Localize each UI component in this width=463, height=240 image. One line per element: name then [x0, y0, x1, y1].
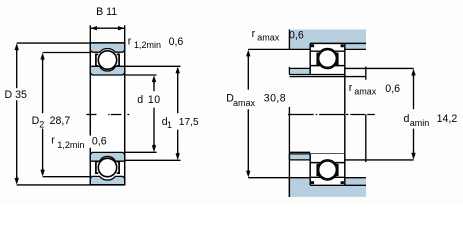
- ball bottom (right view): [319, 161, 337, 179]
- dimension D arrow top: [15, 43, 19, 52]
- shaft shoulder face (right view): [288, 107, 290, 197]
- dimension damin line: [413, 75, 415, 155]
- dimension B arrow left: [91, 26, 99, 30]
- bearing bore line bottom (right view): [289, 153, 344, 155]
- centerline (right view): [288, 114, 375, 116]
- bearing box edges bottom redraw (right view): [310, 154, 345, 185]
- dimension d1 line: [177, 72, 179, 154]
- dimension d extension lines: [125, 75, 157, 152]
- bearing box edges (right view): [309, 43, 311, 185]
- housing shoulder line top: [248, 48, 366, 50]
- outer race lines top (right view): [310, 50, 345, 52]
- race halo top (right view): [317, 48, 337, 68]
- dimension damin arrow top: [411, 69, 415, 78]
- dimension D line: [16, 45, 18, 183]
- svg-text:amax: amax: [354, 86, 377, 96]
- shaft shoulder top (right view): [289, 68, 310, 74]
- inner race lines bottom (right view): [310, 162, 345, 164]
- svg-text:0,6: 0,6: [169, 36, 184, 48]
- housing section top (right view): [289, 30, 366, 50]
- svg-text:17,5: 17,5: [179, 117, 199, 128]
- dimension damin arrow bottom: [411, 151, 415, 160]
- svg-text:d: d: [137, 94, 143, 106]
- svg-text:r: r: [128, 35, 132, 47]
- dimension d1 extension lines: [125, 66, 181, 160]
- svg-text:D 35: D 35: [5, 89, 27, 101]
- inner ring bottom section: [90, 152, 124, 161]
- dimension D extension lines: [17, 43, 91, 185]
- housing bore line top: [310, 42, 366, 44]
- shaft surface line bottom (right view): [289, 151, 310, 153]
- svg-text:r: r: [349, 82, 353, 94]
- dimension B arrow right: [116, 26, 124, 30]
- svg-text:0,6: 0,6: [289, 30, 304, 42]
- svg-text:14,2: 14,2: [437, 113, 458, 125]
- svg-text:B 11: B 11: [96, 6, 117, 18]
- dimension d line: [153, 81, 155, 147]
- svg-text:1: 1: [167, 120, 172, 130]
- dimension D2 arrow bottom: [40, 168, 44, 177]
- svg-text:10: 10: [148, 94, 161, 106]
- inner ring top section: [90, 66, 124, 75]
- dimension d1 arrow top: [176, 67, 180, 76]
- cage top (left view): [96, 54, 98, 66]
- dimension B line: [90, 27, 124, 29]
- inner race lines top (right view): [310, 65, 345, 67]
- bearing seat cutout top (right view): [310, 43, 345, 74]
- ball top (right view): [319, 50, 337, 68]
- housing shoulder line bottom: [248, 177, 366, 179]
- outer race lines bottom (right view): [310, 176, 345, 178]
- shaft step edge top (right view): [365, 67, 367, 80]
- outer ring corner marks bottom (right view): [311, 181, 314, 184]
- shaft end edge bottom (right view): [365, 115, 367, 163]
- svg-text:0,6: 0,6: [385, 83, 400, 95]
- shaft surface line top (right view): [289, 76, 366, 78]
- centerline (left view): [86, 114, 129, 116]
- outer ring bottom section: [90, 176, 124, 184]
- svg-text:30,8: 30,8: [264, 93, 286, 105]
- dimension Damax arrow bottom: [246, 169, 250, 178]
- housing shoulder face bottom: [288, 178, 290, 197]
- dimension D arrow bottom: [15, 176, 19, 185]
- housing shoulder face top: [288, 30, 290, 50]
- svg-text:amax: amax: [233, 98, 256, 108]
- svg-text:1,2min: 1,2min: [57, 140, 84, 150]
- svg-text:r: r: [252, 28, 256, 40]
- dimension d arrow top: [152, 75, 156, 84]
- outer ring corner marks top (right view): [311, 44, 314, 47]
- svg-text:28,7: 28,7: [50, 115, 71, 127]
- label r 1,2min 0,6 (lower left): [91, 136, 110, 148]
- svg-text:1,2min: 1,2min: [134, 40, 161, 50]
- dimension D2 arrow top: [40, 53, 44, 62]
- cage bottom (right view): [317, 165, 319, 176]
- ball top (left view): [98, 51, 116, 69]
- da extension line top (right view): [345, 67, 414, 69]
- housing section bottom (right view): [289, 178, 366, 197]
- dimension Damax arrow top: [246, 50, 250, 59]
- housing bore line bottom: [310, 184, 366, 186]
- ball bottom (left view): [98, 158, 116, 176]
- da extension line bottom (right view): [345, 159, 414, 161]
- dimension d1 arrow bottom: [176, 152, 180, 161]
- cage bottom (left view): [96, 162, 98, 174]
- svg-text:amax: amax: [257, 32, 280, 42]
- dimension D2 extension lines: [43, 53, 91, 177]
- dimension D2 line: [42, 55, 44, 175]
- svg-text:amin: amin: [410, 118, 430, 128]
- bearing bore line top (right view): [289, 74, 344, 76]
- svg-text:r: r: [51, 135, 55, 147]
- cage top (right view): [317, 53, 319, 64]
- svg-text:2: 2: [39, 119, 44, 129]
- shaft shoulder bottom (right view): [289, 154, 310, 160]
- dimension d arrow bottom: [152, 144, 156, 153]
- outer ring top section: [90, 43, 124, 52]
- dimension B extension lines: [90, 25, 124, 43]
- race halo bottom (right view): [317, 160, 337, 180]
- bearing seat cutout bottom (right view): [310, 154, 345, 185]
- svg-text:d: d: [404, 113, 410, 125]
- bearing body outline (left view): [90, 43, 124, 185]
- dimension Damax line: [247, 56, 249, 172]
- svg-text:0,6: 0,6: [92, 136, 107, 148]
